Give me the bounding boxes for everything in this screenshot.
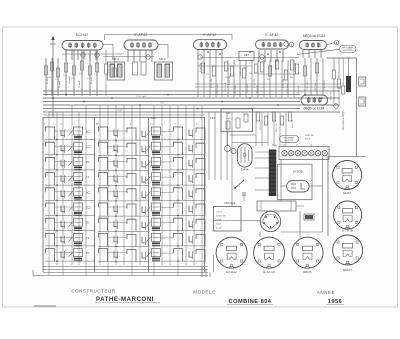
- svg-text:0.1uF 50k: 0.1uF 50k: [283, 78, 285, 88]
- svg-text:CONSTRUCTEUR: CONSTRUCTEUR: [71, 289, 116, 294]
- svg-text:0.1uF 50k: 0.1uF 50k: [254, 78, 256, 88]
- svg-text:T.A.: T.A.: [272, 143, 277, 147]
- svg-text:R31 470: R31 470: [331, 91, 333, 100]
- svg-text:50k: 50k: [267, 79, 270, 81]
- svg-text:25 µF: 25 µF: [216, 228, 222, 230]
- svg-text:1956: 1956: [328, 299, 342, 305]
- svg-text:ECOUTE: ECOUTE: [343, 50, 352, 52]
- svg-text:BO: BO: [96, 124, 99, 126]
- svg-text:MODELE: MODELE: [193, 290, 215, 295]
- svg-text:C15 0.1uF: C15 0.1uF: [217, 84, 219, 94]
- svg-text:CA1: CA1: [210, 117, 215, 120]
- svg-text:1.5k: 1.5k: [71, 78, 75, 80]
- svg-text:→: →: [163, 161, 165, 164]
- svg-text:EL84: EL84: [343, 191, 351, 195]
- svg-text:→: →: [163, 176, 165, 179]
- svg-text:C31: C31: [226, 112, 231, 115]
- svg-text:25 mmF: 25 mmF: [91, 76, 93, 84]
- svg-text:1 µF: 1 µF: [226, 118, 231, 120]
- svg-text:CA1: CA1: [151, 117, 156, 120]
- svg-text:50k: 50k: [206, 74, 209, 76]
- svg-text:C15 0.1uF: C15 0.1uF: [235, 85, 237, 95]
- svg-text:25 mmF: 25 mmF: [69, 76, 71, 84]
- svg-text:HP GRAND: HP GRAND: [342, 47, 353, 50]
- svg-text:2x0.05: 2x0.05: [216, 212, 223, 214]
- svg-text:220 V: 220 V: [305, 139, 311, 141]
- svg-text:E.AF42: E.AF42: [265, 33, 278, 37]
- svg-text:6BQ5 ou EL84: 6BQ5 ou EL84: [304, 107, 325, 111]
- svg-text:0.1uF 50k: 0.1uF 50k: [271, 64, 273, 74]
- svg-text:350 V: 350 V: [216, 224, 222, 226]
- svg-text:C15 0.1uF: C15 0.1uF: [324, 80, 326, 90]
- svg-text:→: →: [163, 131, 165, 134]
- svg-text:0.1uF 50k: 0.1uF 50k: [229, 75, 231, 85]
- svg-text:EM34: EM34: [343, 268, 352, 272]
- svg-text:C26 60µF: C26 60µF: [224, 201, 236, 205]
- svg-text:C23 0.5µF: C23 0.5µF: [136, 96, 147, 98]
- svg-text:25 mmF: 25 mmF: [47, 76, 49, 84]
- svg-text:50k: 50k: [225, 77, 228, 79]
- svg-text:1.5k: 1.5k: [79, 73, 83, 75]
- svg-text:0.1uF 50k: 0.1uF 50k: [240, 66, 242, 76]
- svg-text:HP GRAND: HP GRAND: [284, 137, 295, 140]
- svg-text:25 mmF: 25 mmF: [59, 80, 61, 88]
- svg-text:240V-6.3V: 240V-6.3V: [216, 216, 226, 218]
- svg-text:ECH42: ECH42: [226, 270, 237, 274]
- svg-text:R25 4.7k: R25 4.7k: [292, 119, 294, 128]
- svg-text:R25 4.7k: R25 4.7k: [276, 123, 278, 132]
- svg-text:ECOUTE: ECOUTE: [285, 140, 294, 142]
- svg-text:→: →: [163, 222, 165, 225]
- svg-text:5Y3GB: 5Y3GB: [293, 170, 303, 174]
- svg-text:C15 0.1uF: C15 0.1uF: [298, 85, 300, 95]
- svg-text:PATHE-MARCONI: PATHE-MARCONI: [96, 296, 154, 303]
- svg-text:E.AF42: E.AF42: [134, 33, 147, 37]
- svg-text:→: →: [163, 237, 165, 240]
- svg-text:R25 4.7k: R25 4.7k: [260, 121, 262, 130]
- svg-text:CO: CO: [150, 124, 154, 126]
- svg-text:0.1µF: 0.1µF: [117, 110, 123, 112]
- svg-text:→: →: [163, 191, 165, 194]
- svg-text:MF 2: MF 2: [159, 57, 166, 61]
- svg-text:E.AF42: E.AF42: [203, 33, 216, 37]
- svg-text:6BQ5 ou EL84: 6BQ5 ou EL84: [303, 34, 325, 38]
- svg-text:MF 1: MF 1: [112, 57, 119, 61]
- svg-text:0.1uF 50k: 0.1uF 50k: [211, 78, 213, 88]
- svg-text:BC2: BC2: [86, 192, 91, 194]
- svg-text:25 mmF: 25 mmF: [79, 80, 81, 88]
- svg-text:Vers plaque 6BQ5: Vers plaque 6BQ5: [342, 110, 345, 130]
- svg-text:EM34: EM34: [241, 168, 249, 172]
- svg-text:OC: OC: [86, 253, 90, 255]
- svg-text:→: →: [163, 207, 165, 210]
- svg-text:1.5k: 1.5k: [94, 74, 98, 76]
- svg-text:0.1uF 50k: 0.1uF 50k: [200, 62, 202, 72]
- svg-text:CC2: CC2: [86, 208, 91, 210]
- svg-text:50k: 50k: [290, 77, 293, 79]
- svg-text:6BQ5: 6BQ5: [303, 270, 312, 274]
- svg-text:ECH42: ECH42: [76, 33, 89, 37]
- svg-text:ANNEE: ANNEE: [317, 290, 335, 295]
- svg-text:1.5k: 1.5k: [63, 75, 67, 77]
- svg-text:C15 0.1uF: C15 0.1uF: [307, 80, 309, 90]
- svg-text:COMBINE 804: COMBINE 804: [229, 299, 272, 305]
- svg-text:CC1: CC1: [86, 147, 91, 149]
- svg-text:C15 0.1uF: C15 0.1uF: [257, 85, 259, 95]
- svg-text:E.AF42: E.AF42: [263, 270, 274, 274]
- svg-text:5Y3GB: 5Y3GB: [342, 229, 353, 233]
- svg-text:→: →: [163, 146, 165, 149]
- svg-text:BC1: BC1: [86, 132, 91, 134]
- svg-text:0.1uF 50k: 0.1uF 50k: [295, 62, 297, 72]
- svg-text:50k: 50k: [249, 73, 252, 75]
- svg-text:→: →: [163, 252, 165, 255]
- svg-text:DET: DET: [244, 54, 249, 57]
- svg-text:CENT HV: CENT HV: [305, 135, 314, 137]
